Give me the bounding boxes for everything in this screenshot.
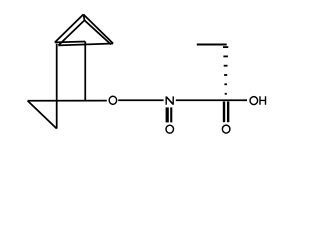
- node N nitrogen glyph: [166, 96, 174, 104]
- wire apex bridge bond: [83, 14, 84, 20]
- wire front roof base: [55, 41, 85, 44]
- node O nitroso oxygen: [166, 125, 174, 133]
- wire back roof right slant: [85, 20, 112, 44]
- wire hashed stereo bond dash 5: [224, 83, 227, 85]
- wire cyclopropane right edge and square left vertical: [56, 44, 58, 129]
- wire O to N bond: [118, 99, 163, 101]
- node H of hydroxyl glyph: [259, 96, 266, 104]
- wire hashed stereo bond dash 2: [223, 56, 228, 58]
- wire hashed stereo bond dash 3: [224, 65, 228, 67]
- wire C=O double bond line 2: [227, 102, 229, 123]
- wire front roof left slant: [55, 14, 84, 42]
- node O ester oxygen: [109, 96, 117, 104]
- wire methyl bond top right: [197, 44, 227, 46]
- node O of hydroxyl: [250, 97, 257, 105]
- wire back roof left slant: [58, 20, 84, 45]
- wire back roof base: [58, 44, 113, 46]
- wire N=O double bond line 1: [166, 107, 169, 122]
- wire square right vertical: [84, 42, 86, 101]
- wire cyclopropane hypotenuse: [28, 101, 57, 129]
- wire hashed stereo bond dash 6: [225, 93, 227, 95]
- wire front roof right slant: [83, 14, 113, 43]
- node O carbonyl oxygen: [222, 125, 230, 133]
- wire bottom rail spiro carbon to ester oxygen: [28, 100, 107, 102]
- wire N to carboxyl carbon to OH bond: [176, 99, 247, 101]
- wire hashed stereo bond dash 1: [223, 46, 228, 48]
- wire N=O double bond line 2: [170, 107, 172, 122]
- wire hashed stereo bond dash 4: [224, 74, 227, 76]
- wire C=O double bond line 1: [223, 102, 225, 123]
